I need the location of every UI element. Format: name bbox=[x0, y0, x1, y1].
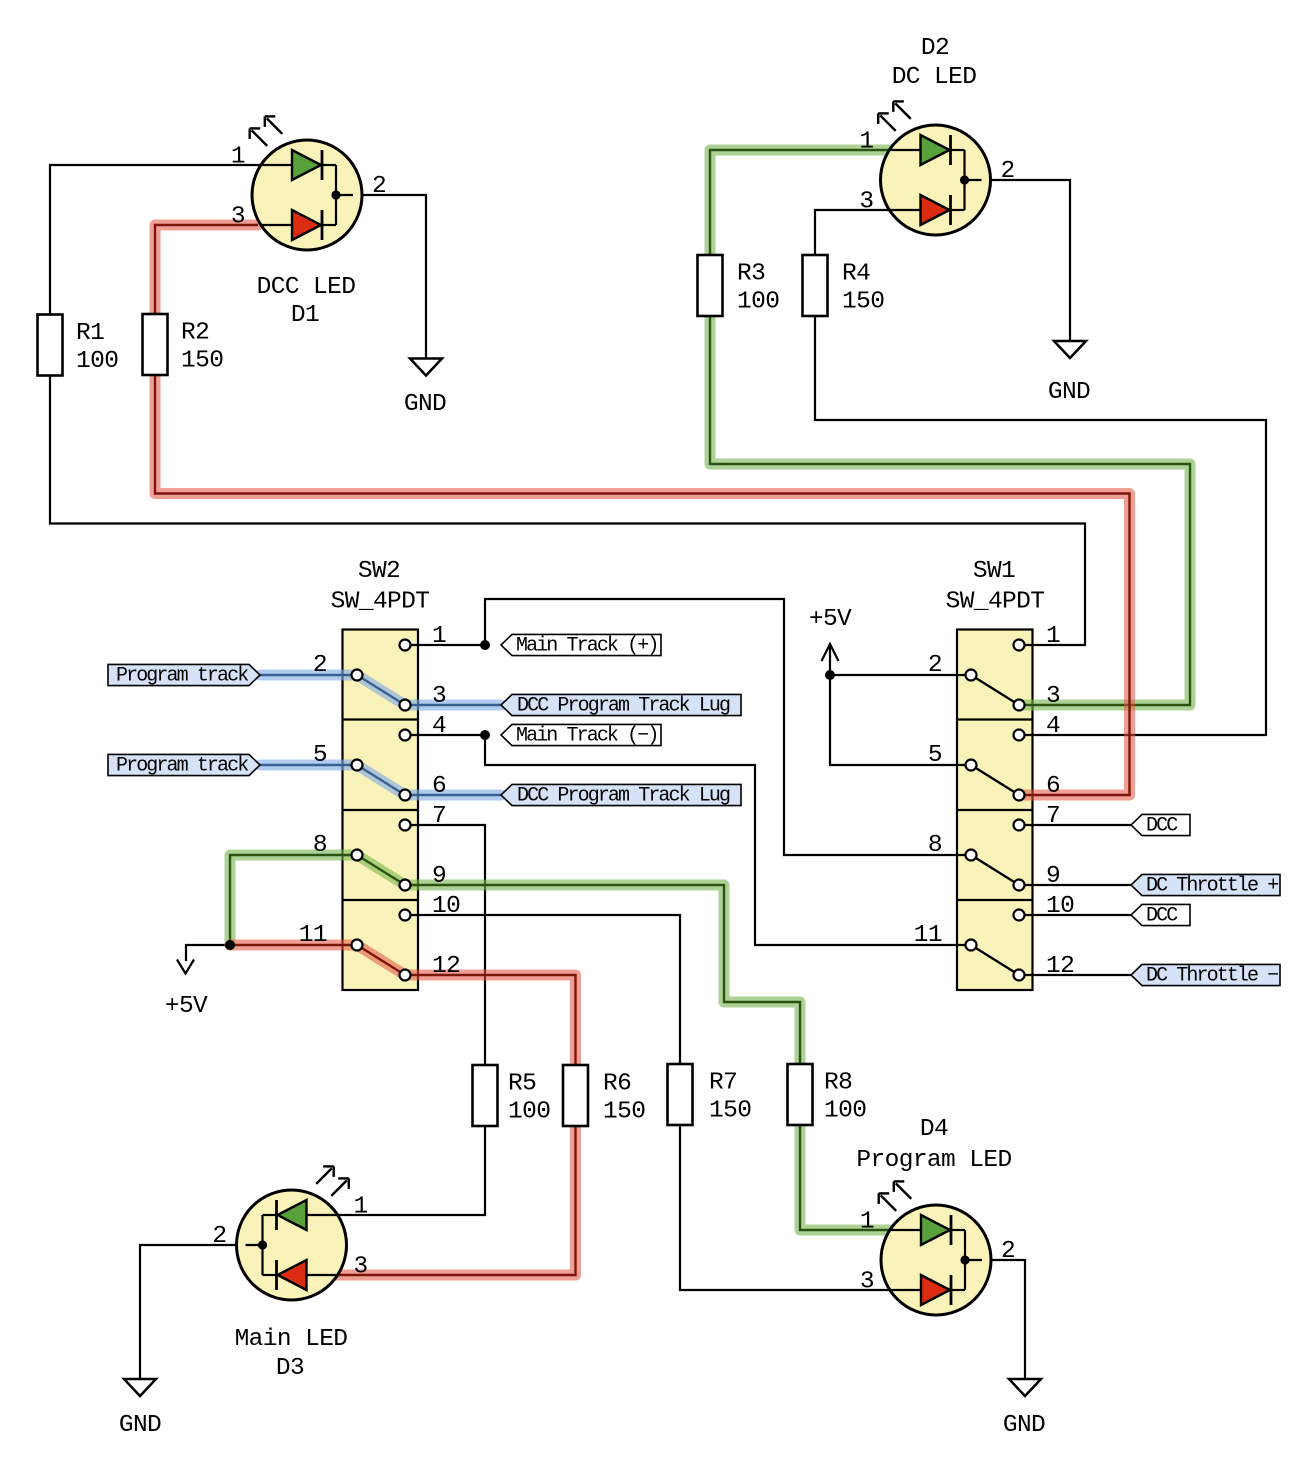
wire (blue) SW2 pin 6 to DCC Program Track Lug label bbox=[405, 790, 501, 801]
power +5V (near SW1) bbox=[809, 606, 852, 675]
svg-text:12: 12 bbox=[432, 953, 460, 980]
svg-text:R7: R7 bbox=[709, 1070, 737, 1097]
SW1 arm pins 2-3 bbox=[971, 675, 1019, 705]
LED D4 (Program LED) bbox=[856, 1116, 1015, 1315]
wire R5 bottom to D3 pin 1 bbox=[336, 1126, 485, 1215]
svg-text:7: 7 bbox=[1046, 803, 1060, 830]
wire SW1 pin 9 to DC Throttle + label bbox=[1019, 884, 1131, 886]
svg-text:D1: D1 bbox=[291, 302, 319, 329]
SW1 arm pins 11-12 bbox=[971, 945, 1019, 975]
wire (green) R3 bottom to SW1 pin 3 bbox=[710, 316, 1190, 705]
resistor R4 bbox=[803, 255, 885, 316]
SW2 pin 7 bbox=[400, 803, 447, 831]
svg-text:2: 2 bbox=[372, 173, 386, 200]
svg-text:DCC: DCC bbox=[1146, 904, 1178, 927]
svg-text:SW_4PDT: SW_4PDT bbox=[331, 589, 430, 616]
svg-text:DC Throttle −: DC Throttle − bbox=[1146, 964, 1278, 987]
svg-text:8: 8 bbox=[313, 832, 327, 859]
svg-text:Main Track (−): Main Track (−) bbox=[516, 724, 657, 747]
svg-text:DCC Program Track Lug: DCC Program Track Lug bbox=[517, 694, 730, 717]
wire net Main Track (+): junction to SW1 pin 8 bbox=[485, 599, 971, 855]
SW1 pin 5 bbox=[928, 742, 977, 771]
svg-text:9: 9 bbox=[432, 863, 446, 890]
svg-text:3: 3 bbox=[231, 204, 245, 231]
svg-text:+5V: +5V bbox=[165, 993, 208, 1020]
wire (green) SW2 pin 9 to R8 bbox=[405, 885, 800, 1064]
label Program track (upper) bbox=[108, 664, 260, 687]
svg-text:1: 1 bbox=[860, 1209, 874, 1236]
svg-text:11: 11 bbox=[299, 922, 327, 949]
wire D4 pin 2 to GND bbox=[991, 1260, 1025, 1380]
wire (red) D1 pin 3 to R2 bbox=[155, 225, 258, 314]
svg-text:GND: GND bbox=[1003, 1412, 1045, 1439]
svg-text:R8: R8 bbox=[824, 1070, 852, 1097]
wire D1 pin 2 to GND bbox=[362, 195, 426, 359]
resistor R7 bbox=[668, 1064, 752, 1125]
wire R4 bottom to SW1 pin 4 bbox=[815, 316, 1266, 735]
svg-text:2: 2 bbox=[1001, 158, 1015, 185]
svg-text:R6: R6 bbox=[603, 1071, 631, 1098]
junction +5V left bbox=[225, 940, 235, 950]
wire (green) SW2 pin 8 to +5V junction bbox=[230, 855, 357, 945]
svg-text:7: 7 bbox=[432, 803, 446, 830]
label DCC Program Track Lug (upper) bbox=[501, 694, 741, 717]
ground below D4 bbox=[1003, 1379, 1045, 1439]
svg-text:1: 1 bbox=[859, 129, 873, 156]
svg-text:GND: GND bbox=[1048, 379, 1090, 406]
svg-text:1: 1 bbox=[231, 144, 245, 171]
svg-text:R1: R1 bbox=[76, 320, 104, 347]
svg-text:D3: D3 bbox=[276, 1355, 304, 1382]
label DCC Program Track Lug (lower) bbox=[501, 784, 741, 807]
SW1 pin 2 bbox=[928, 652, 977, 681]
SW1 pin 7 bbox=[1014, 803, 1061, 831]
SW2 arm pins 2-3 (blue) bbox=[357, 675, 405, 705]
svg-text:6: 6 bbox=[432, 773, 446, 800]
svg-text:100: 100 bbox=[76, 348, 118, 375]
resistor R1 bbox=[38, 315, 119, 376]
svg-text:R4: R4 bbox=[842, 261, 870, 288]
svg-text:150: 150 bbox=[181, 348, 223, 375]
svg-text:6: 6 bbox=[1046, 773, 1060, 800]
svg-text:DCC Program Track Lug: DCC Program Track Lug bbox=[517, 784, 730, 807]
svg-text:9: 9 bbox=[1046, 863, 1060, 890]
ground below D3 bbox=[119, 1379, 161, 1439]
svg-text:100: 100 bbox=[737, 289, 779, 316]
SW2 pin 5 bbox=[313, 742, 363, 771]
resistor R8 bbox=[788, 1064, 867, 1125]
SW2 pin 8 bbox=[313, 832, 363, 861]
SW1 pin 1 bbox=[1014, 623, 1061, 651]
SW2 pin 4 bbox=[400, 713, 447, 741]
svg-text:D4: D4 bbox=[920, 1116, 948, 1143]
wire D3 pin 2 to GND bbox=[140, 1245, 236, 1380]
resistor R3 bbox=[698, 255, 780, 316]
wire (red) R2 bottom to SW1 pin 6 bbox=[155, 375, 1130, 795]
SW1 pin 3 bbox=[1014, 683, 1061, 711]
svg-text:R5: R5 bbox=[508, 1071, 536, 1098]
svg-text:R3: R3 bbox=[737, 261, 765, 288]
svg-text:DCC LED: DCC LED bbox=[257, 274, 356, 301]
switch SW2 body bbox=[343, 630, 419, 991]
svg-text:11: 11 bbox=[914, 922, 942, 949]
wire +5V to SW1 pin 2 bbox=[830, 674, 971, 676]
svg-text:1: 1 bbox=[354, 1194, 368, 1221]
svg-text:8: 8 bbox=[928, 832, 942, 859]
junction Main Track (+) bbox=[480, 640, 490, 650]
wire D2 pin 2 to GND bbox=[991, 180, 1070, 342]
wire R1 bottom loop to SW1 pin 1 bbox=[50, 375, 1085, 645]
SW2 arm pins 8-9 (green) bbox=[357, 855, 405, 885]
svg-text:3: 3 bbox=[432, 683, 446, 710]
SW1 pin 11 bbox=[914, 922, 977, 951]
SW1 pin 6 bbox=[1014, 773, 1061, 801]
label Main Track (+) bbox=[501, 634, 661, 657]
wire net Main Track (-): SW2 pin 4 to junction bbox=[405, 734, 485, 736]
svg-text:150: 150 bbox=[603, 1099, 645, 1126]
svg-text:1: 1 bbox=[432, 623, 446, 650]
wire +5V stub left bbox=[186, 945, 230, 961]
svg-text:5: 5 bbox=[928, 742, 942, 769]
LED D1 (DCC LED) bbox=[231, 116, 386, 329]
svg-text:10: 10 bbox=[432, 893, 460, 920]
wire SW1 pin 12 to DC Throttle - label bbox=[1019, 974, 1131, 976]
ground below D1 bbox=[404, 359, 446, 419]
svg-text:2: 2 bbox=[313, 652, 327, 679]
svg-text:3: 3 bbox=[1046, 683, 1060, 710]
SW2 arm pins 5-6 (blue) bbox=[357, 765, 405, 795]
wire (red) R6 bottom to D3 pin 3 bbox=[336, 1126, 576, 1275]
resistor R6 bbox=[563, 1065, 645, 1126]
svg-text:DCC: DCC bbox=[1146, 814, 1178, 837]
label DC Throttle - bbox=[1131, 964, 1280, 987]
wire SW2 pin 7 to R5 bbox=[405, 825, 485, 1065]
power +5V (near SW2, pointing down) bbox=[165, 960, 208, 1021]
svg-text:2: 2 bbox=[1001, 1238, 1015, 1265]
svg-text:150: 150 bbox=[709, 1098, 751, 1125]
wire SW1 pin 10 to DCC label bbox=[1019, 914, 1131, 916]
wire D2 pin 3 to R4 bbox=[815, 210, 890, 255]
SW2 pin 1 bbox=[400, 623, 447, 651]
wire SW2 pin 10 to R7 bbox=[405, 915, 680, 1064]
wire net Main Track (+): SW2 pin 1 to junction bbox=[405, 644, 485, 646]
svg-text:Program LED: Program LED bbox=[856, 1147, 1011, 1174]
label DCC (lower) bbox=[1131, 904, 1190, 927]
svg-text:2: 2 bbox=[212, 1223, 226, 1250]
svg-text:SW1: SW1 bbox=[973, 558, 1015, 585]
SW2 pin 10 bbox=[400, 893, 461, 921]
label Program track (lower) bbox=[108, 754, 260, 777]
SW1 pin 8 bbox=[928, 832, 977, 861]
svg-text:10: 10 bbox=[1046, 893, 1074, 920]
svg-text:150: 150 bbox=[842, 289, 884, 316]
svg-text:SW_4PDT: SW_4PDT bbox=[946, 589, 1045, 616]
svg-text:2: 2 bbox=[928, 652, 942, 679]
svg-text:4: 4 bbox=[432, 713, 446, 740]
label DC Throttle + bbox=[1131, 874, 1280, 897]
junction +5V right bbox=[825, 670, 835, 680]
label DCC (upper) bbox=[1131, 814, 1190, 837]
svg-text:Program track: Program track bbox=[116, 754, 248, 777]
svg-text:100: 100 bbox=[508, 1099, 550, 1126]
wire (blue) SW2 pin 3 to DCC Program Track Lug label bbox=[405, 700, 501, 711]
SW2 pin 6 bbox=[400, 773, 447, 801]
svg-text:3: 3 bbox=[859, 189, 873, 216]
SW1 arm pins 8-9 bbox=[971, 855, 1019, 885]
wire (green) D2 pin 1 to R3 bbox=[710, 150, 891, 255]
wire (green) R8 bottom to D4 pin 1 bbox=[800, 1126, 891, 1230]
svg-text:Main LED: Main LED bbox=[235, 1326, 348, 1353]
SW1 pin 4 bbox=[1014, 713, 1061, 741]
svg-text:DC LED: DC LED bbox=[892, 64, 977, 91]
SW2 pin 12 bbox=[400, 953, 461, 981]
svg-text:DC Throttle +: DC Throttle + bbox=[1146, 874, 1278, 897]
svg-text:Main Track (+): Main Track (+) bbox=[516, 634, 657, 657]
label Main Track (-) bbox=[501, 724, 661, 747]
SW2 pin 11 bbox=[299, 922, 363, 951]
svg-text:1: 1 bbox=[1046, 623, 1060, 650]
wire (red) SW2 pin 12 to R6 bbox=[405, 975, 576, 1065]
ground below D2 bbox=[1048, 341, 1090, 406]
wire (blue) Program track label to SW2 pin 5 bbox=[260, 760, 357, 771]
svg-text:+5V: +5V bbox=[809, 606, 852, 633]
SW2 pin 3 bbox=[400, 683, 447, 711]
svg-text:GND: GND bbox=[119, 1412, 161, 1439]
wire SW1 pin 7 to DCC label bbox=[1019, 824, 1131, 826]
wire +5V to SW1 pin 5 bbox=[830, 675, 971, 765]
wire (blue) Program track label to SW2 pin 2 bbox=[260, 670, 357, 681]
svg-text:3: 3 bbox=[860, 1269, 874, 1296]
SW2 pin 9 bbox=[400, 863, 447, 891]
SW1 pin 9 bbox=[1014, 863, 1061, 891]
svg-text:SW2: SW2 bbox=[358, 558, 400, 585]
SW1 pin 10 bbox=[1014, 893, 1075, 921]
junction Main Track (-) bbox=[480, 730, 490, 740]
svg-text:GND: GND bbox=[404, 391, 446, 418]
LED D2 (DC LED) bbox=[859, 35, 1014, 235]
switch SW1 body bbox=[957, 630, 1033, 991]
svg-text:Program track: Program track bbox=[116, 664, 248, 687]
wire (red) +5V junction to SW2 pin 11 bbox=[230, 940, 357, 951]
svg-text:4: 4 bbox=[1046, 713, 1060, 740]
resistor R5 bbox=[473, 1065, 551, 1126]
SW1 pin 12 bbox=[1014, 953, 1075, 981]
svg-text:3: 3 bbox=[354, 1254, 368, 1281]
wire R1 top to D1 pin 1 bbox=[50, 165, 292, 315]
resistor R2 bbox=[143, 314, 224, 375]
wire net Main Track (-): junction to SW1 pin 11 bbox=[485, 735, 971, 945]
svg-text:R2: R2 bbox=[181, 320, 209, 347]
svg-text:5: 5 bbox=[313, 742, 327, 769]
SW1 arm pins 5-6 bbox=[971, 765, 1019, 795]
SW2 arm pins 11-12 (red) bbox=[357, 945, 405, 975]
svg-text:12: 12 bbox=[1046, 953, 1074, 980]
LED D3 (Main LED) bbox=[212, 1166, 367, 1382]
svg-text:D2: D2 bbox=[921, 35, 949, 62]
svg-text:100: 100 bbox=[824, 1098, 866, 1125]
wire R7 bottom to D4 pin 3 bbox=[680, 1126, 891, 1290]
SW2 pin 2 bbox=[313, 652, 363, 681]
